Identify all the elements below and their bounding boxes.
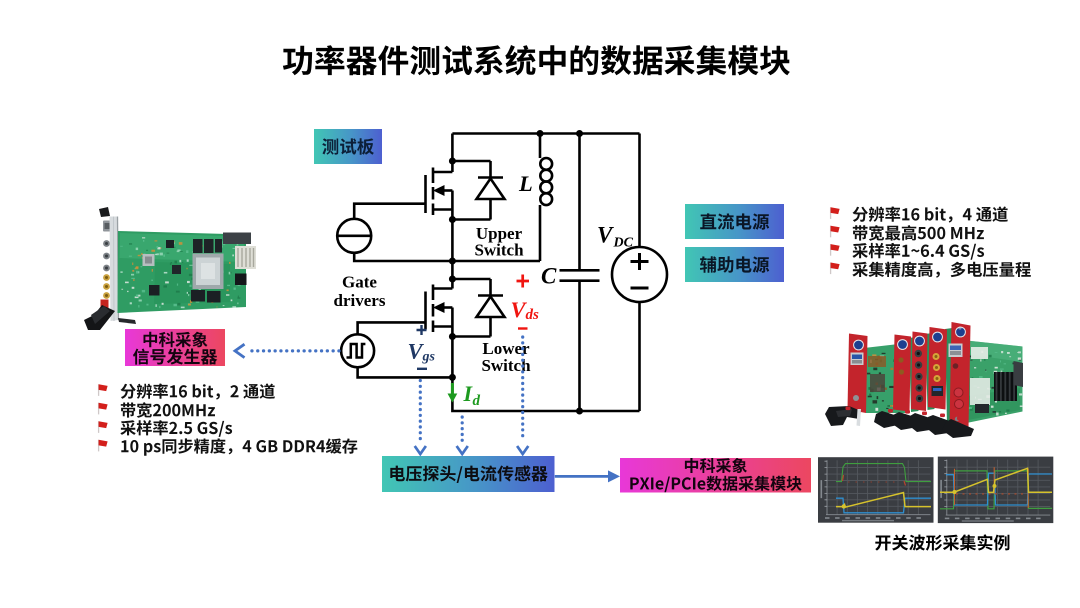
svg-text:drivers: drivers — [334, 291, 386, 310]
svg-text:C: C — [541, 264, 557, 289]
svg-text:d: d — [473, 393, 481, 409]
svg-text:Switch: Switch — [474, 241, 524, 260]
svg-text:gs: gs — [422, 350, 436, 365]
svg-text:L: L — [518, 171, 533, 196]
svg-text:DC: DC — [613, 236, 634, 251]
svg-text:Gate: Gate — [342, 273, 377, 292]
svg-text:V: V — [597, 223, 614, 248]
svg-text:ds: ds — [526, 307, 540, 323]
